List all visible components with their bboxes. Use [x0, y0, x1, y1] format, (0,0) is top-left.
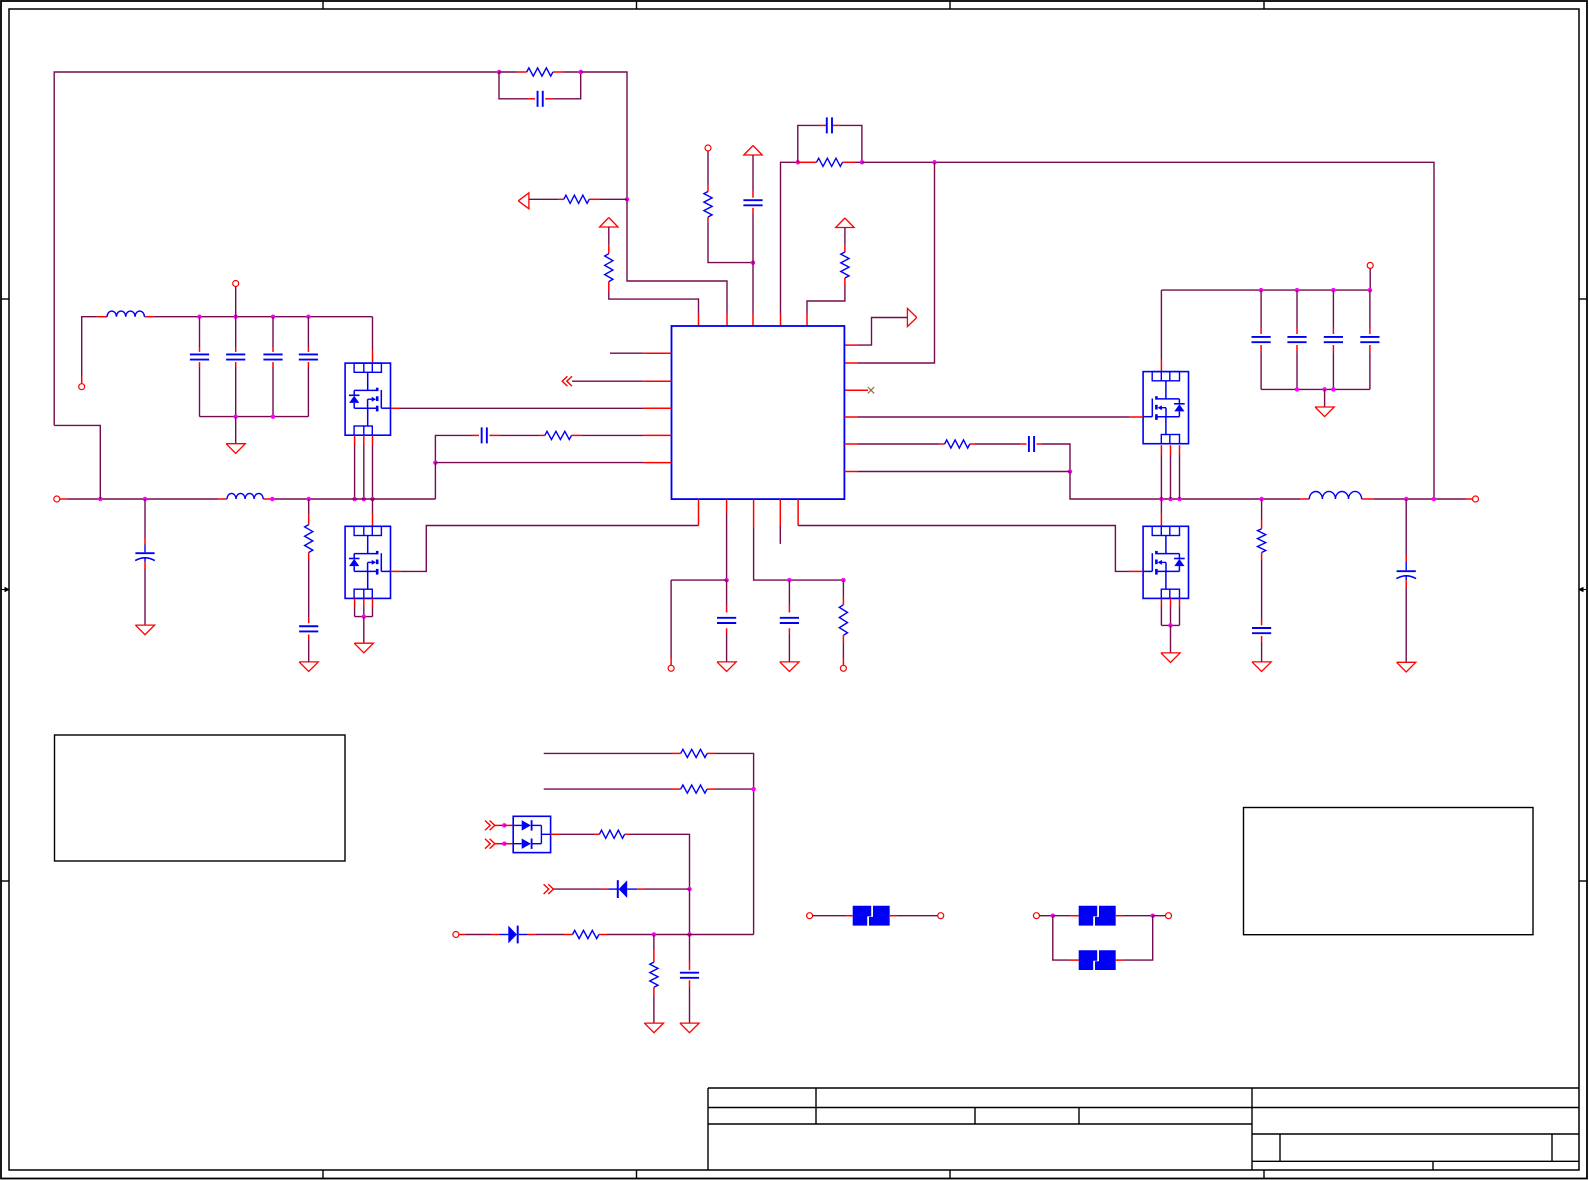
- wire rail down to Q3 drain: [1160, 290, 1162, 359]
- wire from port: [529, 198, 559, 200]
- wire chevron to diode D2: [553, 888, 601, 890]
- junction: [233, 314, 238, 319]
- wire D2 to node: [637, 888, 645, 890]
- terminal right phase output: [1473, 496, 1479, 502]
- junction: [1068, 469, 1073, 474]
- diode D12b: [513, 843, 522, 845]
- resistor R osc: [817, 158, 843, 166]
- diode D12 cathode join: [540, 825, 542, 843]
- dual diode D12 box: [513, 816, 550, 852]
- junction: [1150, 913, 1155, 918]
- wire left phase rail: [60, 498, 68, 500]
- capacitor C19 branch: [689, 935, 691, 962]
- junction: [1259, 497, 1264, 502]
- wire F1 right lead: [890, 915, 897, 917]
- wire Q4 source bar: [1161, 624, 1179, 626]
- wire rail to Q4 drain: [1160, 499, 1162, 513]
- wire F2 top branch: [1053, 915, 1070, 917]
- capacitor C10: [299, 353, 318, 355]
- red lead into box: [504, 824, 513, 826]
- wire IC pin cs left: [644, 434, 672, 436]
- inductor L2 leads: [1300, 498, 1309, 500]
- Q3 source stubs to rail: [1160, 445, 1162, 455]
- resistor R osc leads: [798, 161, 804, 163]
- ground G10: [1397, 662, 1416, 672]
- wire right phase rail end: [1374, 498, 1466, 500]
- wire cap bottom rail left: [200, 416, 309, 418]
- fuse F1 net-tie: [853, 906, 890, 926]
- wire F2 to terminal: [1153, 915, 1166, 917]
- red lead into box: [504, 843, 513, 845]
- power symbol VCC3: [836, 218, 854, 228]
- no-connect pin stub: [844, 389, 868, 391]
- resistor R comp: [564, 195, 589, 203]
- terminal input left: [79, 384, 85, 390]
- pin stub: [752, 313, 754, 326]
- resistor R7 branch: [842, 580, 844, 597]
- wire T5 to right cap rail: [1369, 268, 1371, 290]
- terminal F2 right: [1166, 913, 1172, 919]
- wire terminal up to input rail: [81, 376, 83, 384]
- input chevron port D12 pin1: [485, 821, 490, 831]
- junction: [1432, 497, 1437, 502]
- wire comp to IC pin: [627, 199, 727, 313]
- capacitor C16: [1360, 336, 1379, 338]
- capacitor C13: [1252, 336, 1271, 338]
- wire rail A to terminal T7: [670, 580, 672, 658]
- wire F2b out: [1116, 959, 1124, 961]
- wire F2 input: [1039, 915, 1052, 917]
- capacitor C14 branch: [1296, 290, 1298, 327]
- capacitor C15: [1324, 336, 1343, 338]
- capacitor C7: [190, 353, 209, 355]
- mosfet Q4 lower right: [1143, 526, 1188, 598]
- junction: [860, 160, 865, 165]
- wire top feedback net: [54, 72, 499, 425]
- capacitor C6: [780, 617, 799, 619]
- terminal pin T1: [705, 145, 711, 151]
- wire input rail to Q1 drain: [372, 317, 374, 350]
- wire branch down to IC right pin2: [858, 162, 935, 363]
- border zone ticks left: [1, 298, 9, 300]
- wire IC agnd pin to cap C5: [726, 499, 728, 513]
- junction: [578, 70, 583, 75]
- pin stub: [698, 313, 700, 326]
- capacitor C6 branch: [788, 580, 790, 605]
- drain stub Q1: [372, 350, 374, 363]
- capacitor C16 branch: [1369, 290, 1371, 327]
- wire IC pin sense left: [644, 462, 672, 464]
- lead to terminal: [1466, 498, 1473, 500]
- junction: [271, 314, 276, 319]
- IC U1 controller box: [672, 326, 845, 499]
- capacitor C17: [1252, 627, 1271, 629]
- Q2 source stubs: [354, 598, 356, 606]
- pin stub: [844, 362, 858, 364]
- ground G12: [680, 1023, 699, 1033]
- resistor R cs left: [545, 431, 572, 439]
- wire F2 bottom branch: [1053, 916, 1070, 960]
- junction: [1051, 913, 1056, 918]
- junction: [352, 497, 357, 502]
- inductor L1: [107, 311, 144, 317]
- notes box right: [1244, 808, 1534, 935]
- wire stem to ground G7: [1324, 389, 1326, 407]
- junction: [1331, 288, 1336, 293]
- junction: [306, 314, 311, 319]
- diode D12a: [513, 824, 522, 826]
- pin stub: [806, 313, 808, 326]
- capacitor C14: [1287, 336, 1306, 338]
- resistor R pullup1: [605, 254, 613, 282]
- diode D2 cathode left: [608, 888, 617, 890]
- wire top feedback net down to rail: [54, 425, 100, 499]
- ground G8: [1161, 653, 1180, 663]
- resistor R11: [681, 785, 707, 793]
- polarized capacitor C18 branch: [1405, 499, 1407, 556]
- border center arrow right: [1582, 589, 1587, 591]
- power symbol VCC2: [744, 146, 762, 156]
- capacitor C10 branch: [307, 317, 309, 347]
- ground G2: [135, 625, 154, 635]
- terminal F1 left: [807, 913, 813, 919]
- wire ref rail A: [671, 579, 727, 581]
- junction: [502, 841, 507, 846]
- capacitor C9 branch: [272, 317, 274, 347]
- junction: [233, 414, 238, 419]
- mosfet Q2 lower left: [345, 526, 390, 598]
- border zone ticks top: [322, 1, 324, 9]
- wire chevron to IC: [572, 380, 644, 382]
- fuse F2a net-tie: [1079, 906, 1116, 926]
- junction: [932, 160, 937, 165]
- junction: [502, 823, 507, 828]
- wire IC pin cs right: [844, 443, 858, 445]
- capacitor C9: [263, 353, 282, 355]
- capacitor C osc: [826, 117, 828, 133]
- pin stub: [726, 313, 728, 326]
- capacitor C8: [226, 353, 245, 355]
- Q1 source stubs to phase rail: [354, 435, 356, 445]
- junction: [796, 160, 801, 165]
- capacitor C cs left: [481, 427, 483, 443]
- capacitor C5: [717, 617, 736, 619]
- terminal F1 right: [938, 913, 944, 919]
- wire sync net 2: [544, 788, 671, 790]
- junction: [433, 460, 438, 465]
- gate wire Q3 from IC: [844, 416, 858, 418]
- capacitor C2: [743, 199, 762, 201]
- resistor R7: [839, 605, 847, 636]
- wire node down: [689, 889, 691, 934]
- terminal F2 left: [1033, 913, 1039, 919]
- mosfet Q3 upper right: [1143, 372, 1188, 444]
- capacitor C osc branch: [798, 125, 819, 162]
- resistor R feedback leads: [499, 71, 517, 73]
- IC left pin stub net1: [610, 352, 644, 354]
- junction: [1159, 497, 1164, 502]
- ground G1: [226, 444, 245, 454]
- drain stub Q3: [1160, 359, 1162, 372]
- wire D3 to resistor R13: [528, 934, 536, 936]
- wire chevron to D12 pin2: [495, 843, 500, 845]
- capacitor C8 branch: [235, 317, 237, 347]
- polarized capacitor C11 branch: [144, 499, 146, 538]
- gate wire Q4 from IC: [797, 499, 799, 525]
- resistor R9 branch: [1261, 499, 1263, 519]
- resistor R13: [573, 930, 599, 938]
- ground G3: [299, 662, 318, 672]
- title block: [708, 1088, 1579, 1170]
- output port arrow right: [907, 308, 916, 326]
- junction: [270, 497, 275, 502]
- resistor R10: [681, 749, 707, 757]
- wire phase rail to Q2 drain: [372, 499, 374, 513]
- wire stem to ground: [235, 417, 237, 444]
- junction: [1259, 288, 1264, 293]
- input chevron port gate net: [544, 884, 549, 894]
- drain stub Q2: [372, 513, 374, 526]
- resistor R8: [305, 525, 313, 553]
- ground G6: [780, 662, 799, 672]
- border center arrow left: [1, 589, 6, 591]
- ground G4: [354, 643, 373, 653]
- terminal T5 vin right: [1367, 262, 1373, 268]
- wire Q2 source bar: [355, 616, 373, 618]
- junction: [362, 497, 367, 502]
- wire right cap rail: [1161, 289, 1370, 291]
- input chevron port net2: [567, 376, 572, 386]
- no-connect X: [868, 387, 874, 393]
- terminal T9 bottom input: [453, 932, 459, 938]
- capacitor C15 branch: [1332, 290, 1334, 327]
- junction: [724, 578, 729, 583]
- wire node down to left phase rail: [434, 463, 436, 499]
- junction: [1168, 497, 1173, 502]
- ground G11: [644, 1023, 663, 1033]
- junction: [143, 497, 148, 502]
- resistor R cs right: [945, 440, 970, 448]
- junction: [98, 497, 103, 502]
- junction: [652, 932, 657, 937]
- junction: [370, 497, 375, 502]
- wire IC pin gate drive left high: [644, 407, 672, 409]
- polarized capacitor C18: [1397, 570, 1416, 572]
- border zone ticks right: [1579, 298, 1587, 300]
- junction: [1168, 623, 1173, 628]
- wire stem to ground G4: [363, 617, 365, 644]
- mosfet Q1 upper left: [345, 363, 390, 435]
- junction: [841, 578, 846, 583]
- capacitor C12: [299, 625, 318, 627]
- wire power to capacitor C2: [752, 155, 754, 191]
- fuse F2b net-tie: [1079, 950, 1116, 970]
- resistor R14 branch: [653, 935, 655, 951]
- ground G7: [1315, 407, 1334, 417]
- resistor R pullup2: [841, 252, 849, 278]
- junction: [197, 314, 202, 319]
- gate stub Q1: [391, 407, 400, 409]
- resistor R8 branch: [308, 499, 310, 514]
- wire right cap bottom rail: [1261, 388, 1370, 390]
- wire F1 left lead: [813, 915, 846, 917]
- IC stub pin down: [779, 499, 781, 525]
- wire sync net 1: [544, 752, 671, 754]
- capacitor C7 branch: [199, 317, 201, 347]
- wire chevron to D12 pin1: [495, 824, 500, 826]
- junction: [1322, 387, 1327, 392]
- junction: [362, 614, 367, 619]
- wire IC pin4 up to RC: [780, 313, 782, 326]
- junction: [625, 197, 630, 202]
- wire long top net to right side: [862, 162, 1434, 499]
- power symbol VCC1: [600, 218, 618, 228]
- wire input rail: [154, 316, 373, 318]
- capacitor C feedback branch: [499, 72, 528, 99]
- junction: [1295, 387, 1300, 392]
- wire D12 output: [551, 833, 560, 835]
- wire T1 to resistor: [707, 151, 709, 186]
- resistor R sense1: [704, 192, 712, 218]
- wire to comp pin: [581, 72, 627, 199]
- wire IC ref pin to rail B: [753, 499, 755, 527]
- border zone ticks bottom: [322, 1170, 324, 1179]
- junction: [687, 932, 692, 937]
- junction: [306, 497, 311, 502]
- ground G5: [717, 662, 736, 672]
- wire IC pin sense right: [844, 471, 858, 473]
- wire T9 to diode D3: [459, 934, 466, 936]
- junction: [1177, 497, 1182, 502]
- inductor L1 leads: [98, 316, 107, 318]
- capacitor C19: [680, 972, 699, 974]
- wire node down to right phase rail: [1070, 472, 1300, 500]
- junction: [1404, 497, 1409, 502]
- resistor R14: [650, 962, 658, 987]
- input chevron port D12 pin2: [485, 839, 490, 849]
- diode D3 anode left: [499, 934, 508, 936]
- junction: [1368, 288, 1373, 293]
- junction: [271, 414, 276, 419]
- polarized capacitor C11: [135, 552, 154, 554]
- wire stem to ground G8: [1170, 625, 1172, 653]
- junction: [751, 260, 756, 265]
- terminal left phase output: [54, 496, 60, 502]
- inductor L3: [227, 493, 263, 499]
- junction: [1331, 387, 1336, 392]
- input port arrow left: [518, 193, 529, 209]
- junction: [497, 70, 502, 75]
- wire power to resistor: [608, 227, 610, 245]
- terminal T2 above rail: [233, 281, 239, 287]
- resistor R feedback: [527, 68, 553, 76]
- capacitor C5 branch: [726, 580, 728, 605]
- resistor R12: [599, 830, 624, 838]
- junction: [787, 578, 792, 583]
- wire power3 to resistor: [844, 228, 846, 246]
- wire IC right pin1 to output arrow: [844, 344, 858, 346]
- Q4 source stubs: [1160, 598, 1162, 606]
- wire T2 to rail: [235, 287, 237, 317]
- terminal T7: [668, 665, 674, 671]
- capacitor C13 branch: [1260, 290, 1262, 327]
- capacitor C cs right: [1028, 436, 1030, 452]
- ground G9: [1252, 662, 1271, 672]
- notes box left: [55, 735, 346, 861]
- drain stub Q4: [1160, 513, 1162, 526]
- terminal T8: [840, 665, 846, 671]
- wire F2a out: [1116, 915, 1124, 917]
- gate wire Q2 from IC: [698, 499, 700, 525]
- junction: [1295, 288, 1300, 293]
- resistor R9: [1258, 529, 1266, 553]
- inductor L2: [1309, 491, 1361, 499]
- junction: [687, 887, 692, 892]
- junction: [751, 787, 756, 792]
- capacitor C feedback: [537, 91, 539, 107]
